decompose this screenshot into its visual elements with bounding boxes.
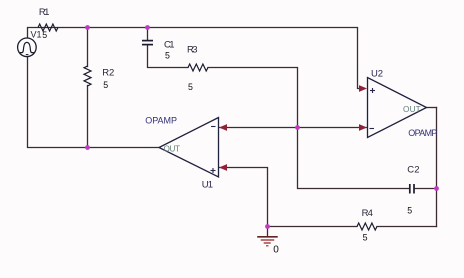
svg-text:OUT: OUT xyxy=(403,105,421,114)
svg-text:U2: U2 xyxy=(371,68,383,79)
svg-text:5: 5 xyxy=(407,206,412,216)
svg-text:OPAMP: OPAMP xyxy=(408,128,437,138)
svg-text:5: 5 xyxy=(42,30,47,40)
svg-text:V1: V1 xyxy=(31,30,42,40)
svg-text:R2: R2 xyxy=(102,68,114,79)
svg-text:R4: R4 xyxy=(362,208,373,219)
svg-text:5: 5 xyxy=(363,233,368,243)
svg-text:U1: U1 xyxy=(202,180,213,191)
svg-text:C1: C1 xyxy=(164,40,175,51)
svg-text:R1: R1 xyxy=(39,7,50,18)
svg-text:5: 5 xyxy=(103,80,108,90)
svg-text:R3: R3 xyxy=(187,45,198,56)
svg-text:C2: C2 xyxy=(407,165,419,176)
svg-text:5: 5 xyxy=(165,51,170,61)
svg-text:OUT: OUT xyxy=(164,144,181,153)
svg-text:OPAMP: OPAMP xyxy=(145,116,177,126)
svg-text:0: 0 xyxy=(273,244,279,255)
svg-text:5: 5 xyxy=(188,82,193,92)
